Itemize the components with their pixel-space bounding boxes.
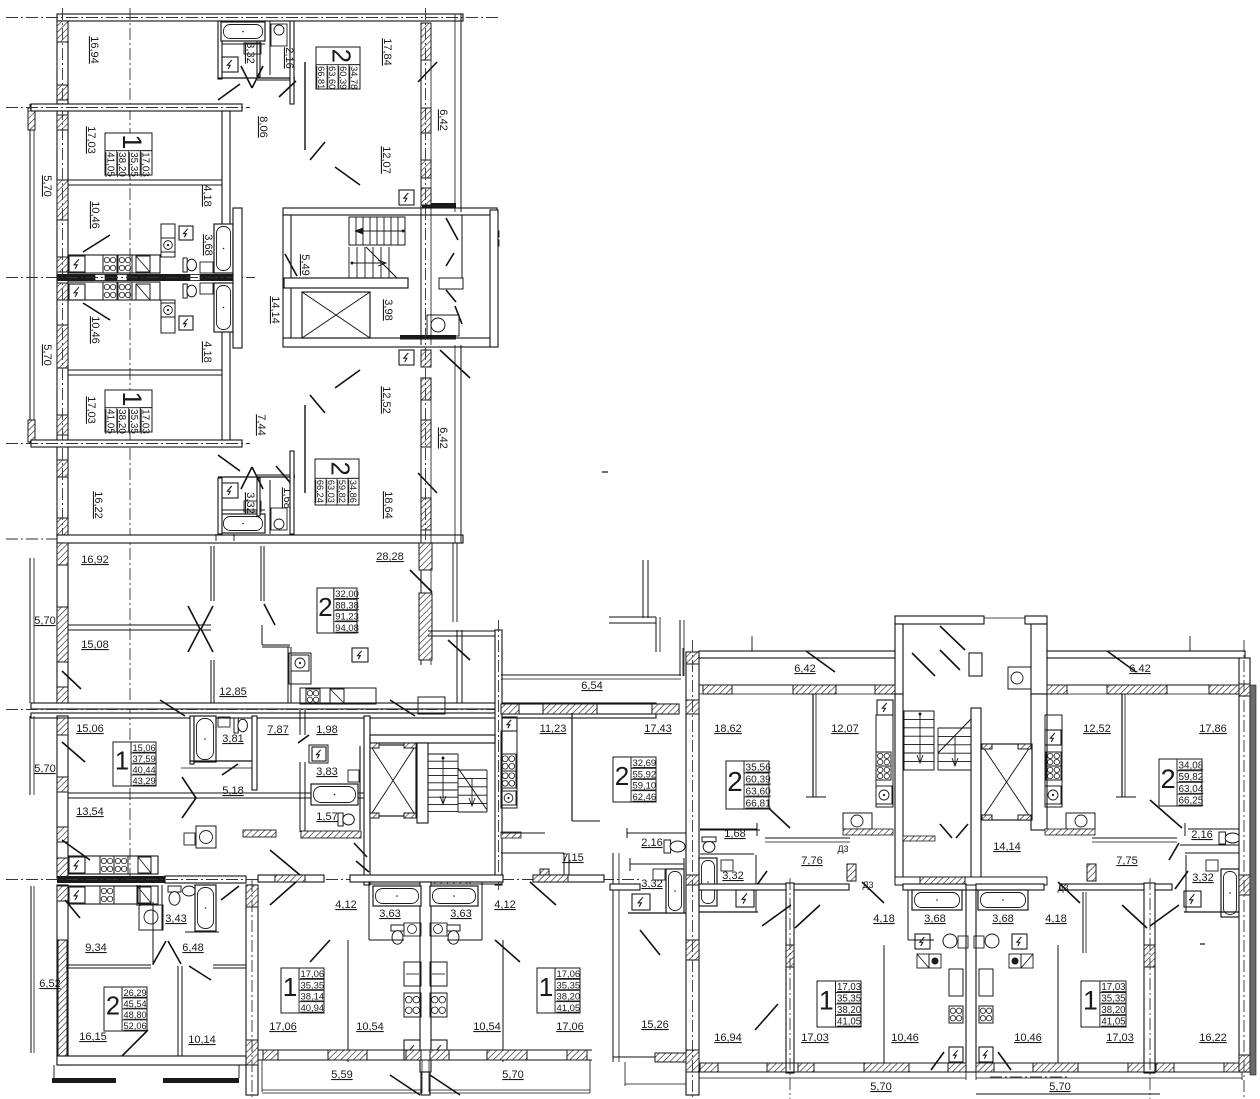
wing bottom wall [57, 535, 463, 543]
svg-text:3,83: 3,83 [316, 766, 337, 778]
svg-text:4,18: 4,18 [201, 185, 213, 206]
elevator left-center [370, 745, 416, 816]
svg-text:3,68: 3,68 [202, 234, 214, 255]
core right wall [490, 210, 498, 347]
svg-text:12,07: 12,07 [380, 146, 392, 174]
wing bath walls left [700, 828, 757, 830]
svg-text:38,20: 38,20 [837, 1005, 861, 1016]
svg-text:16,22: 16,22 [92, 491, 104, 519]
svg-text:10,54: 10,54 [473, 1021, 501, 1033]
closet double doors [188, 606, 200, 629]
svg-text:41,05: 41,05 [104, 409, 115, 434]
svg-text:2: 2 [106, 992, 120, 1020]
wing bottom hatched wall [699, 1062, 966, 1064]
bathtubs pair [373, 886, 421, 906]
svg-text:10,46: 10,46 [1014, 1032, 1042, 1044]
bath 3.83/1.57 block [309, 745, 328, 763]
svg-text:18,62: 18,62 [714, 723, 742, 735]
left-center core walls [364, 716, 370, 885]
svg-text:3,32: 3,32 [722, 870, 743, 882]
wing core landing walls [895, 694, 903, 885]
core vent shaft [969, 653, 982, 676]
svg-text:16,94: 16,94 [88, 36, 100, 64]
svg-text:2,16: 2,16 [283, 47, 295, 68]
core door swings upper [912, 653, 935, 676]
middle entry corridor walls [456, 630, 458, 703]
bottom dashed axis [502, 879, 640, 881]
svg-text:38,20: 38,20 [557, 992, 581, 1003]
right wing core upper box [895, 616, 984, 624]
svg-text:3,43: 3,43 [165, 913, 186, 925]
wing pair toilets [943, 934, 957, 948]
wing bottom walls y884 [699, 884, 849, 890]
middle block divider 16.92/15.08 [68, 624, 211, 626]
wing pair bath walls [907, 890, 909, 940]
apartment box 2 lower-right [315, 459, 359, 505]
core right door opening rects [491, 231, 499, 237]
wing kitchen counter left [843, 813, 872, 829]
svg-text:6,42: 6,42 [437, 427, 449, 448]
wing kitchen counter right [1066, 813, 1095, 829]
svg-text:5,70: 5,70 [1049, 1081, 1070, 1093]
core wall black caps [422, 203, 456, 208]
svg-text:32,69: 32,69 [633, 758, 657, 769]
stair core top walls [283, 208, 497, 215]
core double doors [446, 218, 458, 240]
right wall bottom-left apt [246, 885, 258, 1095]
svg-text:12,85: 12,85 [219, 686, 247, 698]
door 15.08 corridor [264, 604, 275, 625]
door swings top wing [279, 81, 296, 97]
svg-text:38,14: 38,14 [301, 992, 325, 1003]
svg-text:5,70: 5,70 [34, 615, 55, 627]
wing core landing hatch [903, 836, 935, 841]
svg-text:2: 2 [727, 766, 742, 797]
svg-text:59,82: 59,82 [337, 480, 347, 503]
svg-text:17,43: 17,43 [644, 723, 672, 735]
svg-text:4,12: 4,12 [335, 899, 356, 911]
svg-text:17,03: 17,03 [140, 409, 151, 434]
svg-text:66,25: 66,25 [1179, 796, 1204, 807]
stair landing slab [284, 278, 408, 288]
corridor 1.68 walls [269, 480, 271, 534]
door swings bottom-left [65, 900, 80, 918]
top bathroom 3.32 [218, 21, 222, 79]
svg-text:17,03: 17,03 [85, 126, 97, 154]
svg-text:16,15: 16,15 [79, 1031, 107, 1043]
svg-text:1: 1 [539, 972, 554, 1002]
svg-text:17,03: 17,03 [801, 1032, 829, 1044]
svg-text:14,14: 14,14 [993, 841, 1021, 853]
svg-text:17,84: 17,84 [381, 38, 393, 66]
svg-text:5,59: 5,59 [331, 1069, 352, 1081]
svg-text:6,42: 6,42 [794, 663, 815, 675]
svg-text:12,52: 12,52 [1083, 723, 1111, 735]
svg-text:7,76: 7,76 [801, 855, 822, 867]
wing central wall bottom [966, 890, 976, 1072]
svg-text:5,70: 5,70 [34, 763, 55, 775]
svg-text:35,56: 35,56 [746, 763, 772, 774]
svg-text:6,42: 6,42 [1129, 663, 1150, 675]
wing kitchen column right [1045, 730, 1061, 745]
svg-text:17,03: 17,03 [837, 982, 861, 993]
bottom-left bath 3.43 [161, 885, 163, 930]
wing apt partition right x1083 [1082, 892, 1084, 953]
svg-text:15,26: 15,26 [641, 1019, 669, 1031]
wing core stairs flight A [904, 711, 934, 770]
corridor 2.16 sink [271, 24, 287, 46]
middle block closet wall x212 [210, 546, 212, 601]
svg-text:41,05: 41,05 [557, 1003, 581, 1014]
pier 7.15 [540, 869, 549, 882]
toilets near axis [183, 258, 187, 272]
vertical wall x680 [679, 620, 681, 676]
svg-text:7,15: 7,15 [562, 852, 583, 864]
svg-text:1: 1 [819, 986, 834, 1016]
kitchen L-counter lower [161, 300, 175, 333]
svg-text:63,60: 63,60 [327, 66, 337, 89]
bath walls pair [368, 882, 370, 940]
wing balcony lower outline [976, 1093, 1160, 1095]
sink counter 13.54 [196, 826, 216, 848]
svg-text:45,54: 45,54 [124, 999, 147, 1009]
door swings left bottom [62, 742, 85, 762]
wing pair balcony door swings [931, 1052, 944, 1070]
wing core bottom wall [895, 877, 1047, 885]
divider 11.23/17.43 [571, 713, 573, 821]
divider 9.34/16.15 [66, 964, 151, 966]
core vent duct [439, 278, 463, 289]
kitchen row lower (apt 26.29) [68, 886, 158, 904]
svg-text:3,32: 3,32 [244, 42, 256, 63]
core corridor divider [461, 215, 463, 278]
svg-text:63,03: 63,03 [326, 480, 336, 503]
left wall piers [57, 21, 68, 42]
svg-text:88,38: 88,38 [335, 600, 359, 611]
svg-text:41,05: 41,05 [104, 152, 115, 177]
svg-text:5,70: 5,70 [502, 1069, 523, 1081]
svg-text:10,46: 10,46 [89, 201, 101, 229]
svg-text:60,39: 60,39 [746, 775, 772, 786]
svg-text:2: 2 [1160, 763, 1175, 794]
svg-text:41,05: 41,05 [837, 1017, 861, 1028]
svg-text:5,70: 5,70 [41, 344, 53, 365]
svg-text:40,94: 40,94 [301, 1003, 325, 1014]
bottom-left kitchen wall [136, 885, 138, 906]
svg-text:17,03: 17,03 [1101, 982, 1125, 993]
svg-text:66,24: 66,24 [315, 480, 325, 503]
svg-text:2: 2 [326, 462, 354, 476]
svg-text:5,70: 5,70 [41, 175, 53, 196]
stair door swing [285, 254, 297, 276]
corridor 2.16 walls [269, 21, 271, 75]
svg-text:17,06: 17,06 [556, 1021, 584, 1033]
svg-text:2,16: 2,16 [641, 837, 662, 849]
bathtub lower [214, 283, 233, 332]
svg-text:63,60: 63,60 [746, 787, 772, 798]
door swings pair [270, 882, 296, 905]
bottom bathroom 3.32 [221, 514, 265, 533]
room 15.26 walls [612, 853, 614, 1062]
wing right outer wall [1239, 658, 1250, 1072]
toilets pair [391, 925, 404, 931]
wing corridor shelves 1.68 [700, 829, 760, 831]
svg-text:Д3: Д3 [837, 844, 848, 854]
svg-text:4,18: 4,18 [1045, 913, 1066, 925]
svg-text:94,08: 94,08 [335, 623, 359, 634]
svg-text:6,54: 6,54 [581, 680, 602, 692]
wing top wall [699, 651, 895, 658]
kitchen counters top [68, 255, 160, 273]
svg-text:1: 1 [117, 134, 148, 149]
wing core stairs flight B [938, 727, 971, 729]
svg-text:55,92: 55,92 [633, 769, 657, 780]
svg-text:3,98: 3,98 [382, 299, 394, 320]
pair top wall [258, 875, 324, 882]
svg-text:15,06: 15,06 [133, 743, 156, 753]
svg-text:28,28: 28,28 [376, 551, 404, 563]
block divider wall y877 [57, 876, 165, 883]
svg-text:1,57: 1,57 [316, 811, 337, 823]
wing bath right apt [1221, 869, 1239, 917]
apartment box 2 upper-right [316, 47, 360, 89]
bottom wall pair with piers [258, 1049, 425, 1051]
svg-text:3,32: 3,32 [641, 878, 662, 890]
svg-text:17,06: 17,06 [269, 1021, 297, 1033]
svg-text:3,68: 3,68 [992, 913, 1013, 925]
wing kitchen column left [877, 700, 893, 715]
bath bottom line left-block [628, 912, 686, 914]
svg-text:2: 2 [327, 49, 355, 63]
room 28.28 right wall piers [420, 543, 422, 665]
bath 3.32 left-block lower [666, 869, 684, 913]
left balcony line [29, 104, 31, 443]
svg-text:3,63: 3,63 [379, 908, 400, 920]
bottom-left bottom wall [57, 1056, 246, 1065]
top balcony wall 6.54 [501, 674, 681, 676]
svg-text:1: 1 [117, 391, 148, 406]
core water heater [1008, 667, 1031, 689]
svg-text:16,94: 16,94 [714, 1032, 742, 1044]
hall divider 9.34/6.48 [152, 902, 154, 965]
svg-text:2: 2 [318, 592, 333, 622]
partitions pair [347, 940, 349, 1062]
svg-text:11,23: 11,23 [540, 723, 567, 735]
svg-text:9,34: 9,34 [85, 942, 106, 954]
core bottom wall + entry [370, 877, 502, 884]
svg-text:43,29: 43,29 [133, 776, 156, 786]
svg-text:7,87: 7,87 [267, 724, 288, 736]
washbasins pair [404, 923, 421, 936]
core side elec panels [399, 190, 414, 205]
left-center core landing slab [370, 735, 495, 743]
svg-text:10,54: 10,54 [356, 1021, 384, 1033]
central wall of pair [420, 882, 431, 1072]
wing piers 7.76 / 7.75 [847, 864, 856, 881]
svg-text:10,46: 10,46 [891, 1032, 919, 1044]
balconies pair [261, 1060, 263, 1092]
svg-text:66,81: 66,81 [746, 799, 772, 810]
corridor wall x300 [299, 710, 301, 735]
corridor 1.68 sink [271, 508, 287, 530]
wing hall wall left apt [765, 837, 850, 839]
svg-text:34,08: 34,08 [1179, 760, 1204, 771]
svg-text:35,35: 35,35 [128, 409, 139, 434]
svg-text:34,86: 34,86 [348, 480, 358, 503]
room 17.84 walls [304, 62, 306, 150]
svg-text:5,70: 5,70 [870, 1081, 891, 1093]
stairs top wing flight B [348, 247, 350, 279]
svg-text:35,35: 35,35 [1101, 994, 1125, 1005]
svg-text:91,23: 91,23 [335, 612, 359, 623]
kitchen row upper (apt 15.06) [68, 856, 158, 874]
wing door swings [806, 651, 835, 672]
svg-text:7,44: 7,44 [255, 414, 267, 435]
bottom-left balcony slab [52, 1078, 116, 1083]
svg-text:62,46: 62,46 [633, 792, 657, 803]
elevator top wing [302, 292, 370, 338]
svg-text:Д3: Д3 [862, 880, 873, 890]
middle kitchen fixtures [289, 653, 311, 684]
wing elevator [981, 744, 1032, 820]
hall 7.15 walls [501, 852, 564, 854]
wing pair bathtubs [912, 890, 962, 910]
svg-text:35,35: 35,35 [557, 980, 581, 991]
washbasin 3.32 left-block [653, 869, 665, 880]
middle block bottom wall [31, 703, 656, 709]
svg-text:52,06: 52,06 [124, 1021, 147, 1031]
svg-text:1,98: 1,98 [316, 724, 337, 736]
balcony divider stub [421, 1072, 430, 1095]
svg-text:14,14: 14,14 [269, 296, 281, 324]
svg-text:60,39: 60,39 [338, 66, 348, 89]
svg-text:41,05: 41,05 [1101, 1017, 1125, 1028]
svg-text:35,35: 35,35 [837, 994, 861, 1005]
wing lower rooms walls [304, 405, 306, 493]
svg-text:17,03: 17,03 [85, 396, 97, 424]
svg-text:7,75: 7,75 [1116, 855, 1137, 867]
wing hall wall right apt [1092, 837, 1177, 839]
wing shaft wall [971, 708, 981, 885]
left bottom block left wall [57, 716, 68, 878]
middle block closet wall x262 [260, 546, 262, 601]
middle block right step walls [642, 560, 644, 618]
electric panel boxes [179, 226, 193, 240]
central kitchen band wall [57, 274, 242, 281]
core water heater [427, 315, 459, 336]
kitchen column 11.23 [502, 717, 517, 731]
svg-text:15,06: 15,06 [76, 723, 104, 735]
right balcony corridor wall piers [420, 23, 422, 345]
svg-text:38,20: 38,20 [116, 409, 127, 434]
svg-text:6,42: 6,42 [437, 109, 449, 130]
svg-text:17,06: 17,06 [301, 969, 325, 980]
wing pair washbasins [917, 954, 929, 968]
wing bath 3.32 left [699, 858, 717, 906]
svg-text:13,54: 13,54 [76, 806, 104, 818]
svg-text:18,64: 18,64 [382, 491, 394, 519]
svg-text:35,35: 35,35 [128, 152, 139, 177]
svg-text:6,48: 6,48 [182, 942, 203, 954]
wing bottom band: side walls [786, 883, 794, 1073]
svg-text:2,16: 2,16 [1191, 829, 1212, 841]
wing bath washbasin left [721, 860, 733, 871]
svg-text:3,32: 3,32 [244, 492, 256, 513]
divider 16.15/10.14 [177, 966, 179, 1058]
wing pair kitchen columns [949, 969, 963, 996]
kitchen counters bottom [68, 282, 160, 300]
stairs top wing flight A [349, 217, 405, 245]
top wing room walls [31, 104, 242, 111]
bath right wall [233, 208, 242, 348]
svg-text:10,46: 10,46 [89, 316, 101, 344]
svg-text:59,82: 59,82 [1179, 772, 1204, 783]
svg-text:63,04: 63,04 [1179, 784, 1204, 795]
svg-text:4,18: 4,18 [873, 913, 894, 925]
middle block left wall [57, 543, 68, 703]
svg-text:38,20: 38,20 [116, 152, 127, 177]
apartment box 1 upper [104, 133, 152, 177]
main divider wall x686 [686, 652, 699, 1095]
elevator shaft wall [417, 743, 428, 823]
bathtub upper [214, 224, 233, 273]
apartment left wall x495 [498, 620, 500, 890]
wing core door swings [940, 824, 952, 838]
svg-text:3,63: 3,63 [450, 908, 471, 920]
kitchen columns pair [404, 962, 421, 986]
svg-text:38,20: 38,20 [1101, 1005, 1125, 1016]
svg-text:10,14: 10,14 [188, 1034, 216, 1046]
svg-text:32,00: 32,00 [335, 589, 359, 600]
stairs left-center flight A [428, 753, 458, 755]
wing hatched band [699, 684, 895, 686]
svg-text:2: 2 [615, 761, 630, 791]
svg-text:15,08: 15,08 [81, 639, 109, 651]
svg-text:16,92: 16,92 [81, 554, 109, 566]
wing pair partitions [883, 945, 885, 1063]
bottom-left apartment outer wall [57, 885, 68, 1065]
svg-text:17,86: 17,86 [1199, 723, 1227, 735]
washing machine + sink [139, 905, 163, 930]
svg-text:17,03: 17,03 [140, 152, 151, 177]
kitchen hatch strip [501, 832, 521, 838]
svg-text:12,52: 12,52 [380, 386, 392, 414]
svg-text:17,03: 17,03 [1106, 1032, 1134, 1044]
stray mark [602, 471, 608, 473]
wing balconies bottom [698, 1072, 700, 1080]
svg-text:5,18: 5,18 [222, 785, 243, 797]
svg-text:66,81: 66,81 [316, 66, 326, 89]
stairs left-center flight B [458, 769, 487, 771]
svg-text:48,80: 48,80 [124, 1010, 147, 1020]
svg-text:3,81: 3,81 [222, 733, 243, 745]
svg-text:35,35: 35,35 [301, 980, 325, 991]
divider 15.06/13.54 [68, 792, 390, 794]
svg-text:4,18: 4,18 [201, 341, 213, 362]
shelf 2.16 [627, 832, 686, 834]
svg-text:37,59: 37,59 [133, 754, 156, 764]
core door swings [354, 843, 367, 857]
svg-text:8,06: 8,06 [257, 116, 269, 137]
svg-text:40,44: 40,44 [133, 765, 156, 775]
bottom-left balcony line [30, 886, 32, 1053]
svg-text:4,12: 4,12 [494, 899, 515, 911]
wing toilet right apt 2.16 [1219, 832, 1226, 844]
svg-text:1: 1 [283, 972, 298, 1002]
svg-text:1: 1 [1083, 986, 1098, 1016]
bath 3.81 block [190, 716, 194, 764]
door swings middle [62, 671, 81, 689]
